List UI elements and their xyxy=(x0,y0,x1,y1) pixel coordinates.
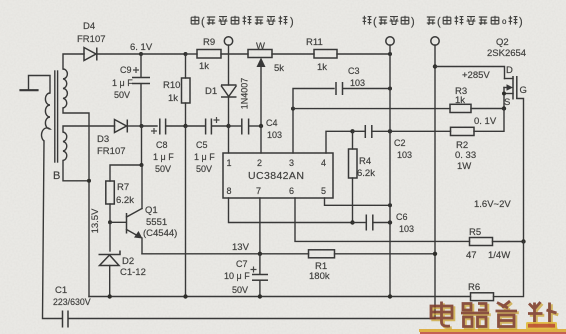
svg-text:13V: 13V xyxy=(232,242,250,253)
svg-text:R7: R7 xyxy=(117,182,129,193)
svg-text:103: 103 xyxy=(267,130,282,140)
svg-text:103: 103 xyxy=(399,224,414,234)
wire CS line pin3 to R3 xyxy=(293,108,450,110)
node C6-gnd xyxy=(388,220,392,224)
svg-text:(: ( xyxy=(373,16,377,28)
transformer T primary winding (left, B) xyxy=(42,93,50,141)
wire W to R11 xyxy=(272,53,314,55)
wire R11 to black terminal line xyxy=(337,53,390,55)
wire R5 to gate line xyxy=(493,241,524,243)
svg-text:R9: R9 xyxy=(203,37,215,48)
svg-text:R11: R11 xyxy=(306,37,323,48)
svg-text:C3: C3 xyxy=(348,66,360,76)
capacitor C5 1uF 50V xyxy=(186,117,220,135)
svg-text:5551: 5551 xyxy=(146,217,167,228)
resistor R5 47 xyxy=(470,238,493,246)
svg-text:50V: 50V xyxy=(155,164,171,174)
pin 4 lead xyxy=(326,131,353,153)
svg-text:Q2: Q2 xyxy=(496,37,509,48)
label C2 xyxy=(394,138,412,160)
svg-text:R10: R10 xyxy=(163,80,180,91)
svg-text:4: 4 xyxy=(321,158,326,168)
wire R3 to source xyxy=(471,108,504,110)
node C2-gnd xyxy=(388,129,392,133)
svg-text:C6: C6 xyxy=(396,212,408,222)
node R10 top xyxy=(184,52,188,56)
wire emitter to 13V rail xyxy=(142,253,309,255)
label Q2 xyxy=(487,37,526,59)
svg-text:D4: D4 xyxy=(83,21,95,32)
svg-text:): ) xyxy=(411,16,415,28)
svg-text:10 μ F: 10 μ F xyxy=(224,271,250,281)
svg-text:1k: 1k xyxy=(168,93,178,104)
transistor Q1 5551 xyxy=(110,165,143,254)
svg-text:2: 2 xyxy=(257,158,262,168)
svg-text:R5: R5 xyxy=(469,227,481,238)
capacitor C8 1uF 50V xyxy=(142,119,166,135)
transistor Q2 2SK2654 MOSFET xyxy=(504,76,524,242)
pin numbers bottom 8 7 6 5 xyxy=(227,186,327,196)
transformer secondary winding upper (6V) xyxy=(63,69,67,108)
zener D2 C1-12 xyxy=(99,222,121,296)
wire primary bottom to C1 xyxy=(43,141,63,319)
svg-text:5: 5 xyxy=(321,186,326,196)
label C5 xyxy=(194,140,215,174)
label D4 xyxy=(77,21,106,45)
ground bus wire xyxy=(89,296,471,298)
wire R9 to W xyxy=(221,53,248,55)
wire R2 right up to source xyxy=(474,109,504,132)
resistor R10 xyxy=(182,54,191,126)
wire D3 to node xyxy=(128,125,142,127)
svg-text:G: G xyxy=(520,85,527,96)
capacitor C2 103 xyxy=(353,125,391,138)
wire D4 to 6.1V rail xyxy=(98,53,142,55)
red terminal xyxy=(431,37,439,45)
svg-text:6.2k: 6.2k xyxy=(357,168,375,179)
svg-text:C8: C8 xyxy=(156,140,168,150)
svg-text:UC3842AN: UC3842AN xyxy=(248,170,304,182)
node Vcc xyxy=(258,252,262,256)
node C3-gnd xyxy=(388,87,392,91)
label D G S xyxy=(504,65,527,108)
svg-text:Q1: Q1 xyxy=(145,205,158,216)
capacitor C1 xyxy=(63,311,69,328)
svg-text:223/630V: 223/630V xyxy=(53,297,91,307)
svg-text:0. 33: 0. 33 xyxy=(455,150,476,161)
pin 1 lead xyxy=(228,126,230,153)
label R10 xyxy=(163,80,180,104)
node bus C7 xyxy=(258,294,262,298)
node collector junction xyxy=(140,163,144,167)
wire C1 right to red line xyxy=(69,318,436,320)
shield/earth stub top-left xyxy=(21,76,51,94)
svg-text:D: D xyxy=(506,65,513,76)
wire 13.5V return: winding mid tap down to common xyxy=(63,108,89,297)
node pin2 / wiper xyxy=(259,124,263,128)
diode D4 FR107 xyxy=(84,48,97,61)
capacitor C7 10uF 50V xyxy=(251,254,269,297)
wire lower winding to D3 xyxy=(63,126,115,132)
svg-text:1k: 1k xyxy=(455,95,465,106)
label C9 xyxy=(112,65,133,100)
svg-text:1W: 1W xyxy=(457,161,471,172)
svg-text:8: 8 xyxy=(227,186,232,196)
svg-text:D3: D3 xyxy=(97,134,109,145)
wire rail to R10 tap xyxy=(141,53,186,55)
resistor R4 6.2k xyxy=(349,131,358,222)
node rail-gnd xyxy=(388,52,392,56)
svg-text:180k: 180k xyxy=(309,271,330,282)
black terminal xyxy=(386,37,394,45)
svg-text:1 μ F: 1 μ F xyxy=(112,78,133,88)
svg-text:6.2k: 6.2k xyxy=(116,195,134,206)
label D3 xyxy=(97,134,126,157)
label R1 xyxy=(309,261,330,282)
wire lower winding bottom to common node xyxy=(63,161,89,181)
svg-text:50V: 50V xyxy=(196,164,212,174)
wire black terminal ground line xyxy=(389,45,391,297)
transformer core xyxy=(55,71,58,162)
pin 8 lead (Vref) xyxy=(229,198,353,223)
label C7 xyxy=(224,259,250,295)
svg-text:1N4007: 1N4007 xyxy=(240,78,250,110)
node R1 right xyxy=(433,252,437,256)
label C8 xyxy=(153,140,174,174)
svg-text:50V: 50V xyxy=(232,285,248,295)
transformer secondary winding lower (13V) xyxy=(63,132,67,161)
svg-text:3: 3 xyxy=(289,158,294,168)
node bus D2 xyxy=(108,294,112,298)
pin 7 lead (Vcc) xyxy=(259,198,261,254)
svg-text:W: W xyxy=(256,41,265,52)
label C3 xyxy=(348,66,365,88)
node pin5-gnd xyxy=(388,203,392,207)
watermark underline band xyxy=(419,329,566,334)
label R5 xyxy=(466,227,510,261)
svg-text:1.6V~2V: 1.6V~2V xyxy=(474,199,511,210)
svg-text:D1: D1 xyxy=(205,86,217,97)
node Q2 source stub xyxy=(502,92,506,96)
svg-text:2SK2654: 2SK2654 xyxy=(487,48,526,59)
capacitor C6 103 xyxy=(353,215,391,231)
node D3 output xyxy=(140,124,144,128)
watermark big characters xyxy=(431,301,558,328)
svg-text:1k: 1k xyxy=(317,62,327,73)
svg-text:+285V: +285V xyxy=(462,70,490,81)
label D2 xyxy=(120,256,146,278)
wire upper winding top to D4 xyxy=(63,54,84,69)
node 6.1V xyxy=(139,52,143,56)
label black terminal text xyxy=(363,16,415,28)
svg-text:1k: 1k xyxy=(199,61,209,72)
svg-text:C1-12: C1-12 xyxy=(120,267,146,278)
node bus black line xyxy=(388,294,392,298)
svg-text:C7: C7 xyxy=(236,259,248,269)
svg-text:0. 1V: 0. 1V xyxy=(474,116,497,127)
svg-text:(C4544): (C4544) xyxy=(143,228,177,239)
svg-text:C1: C1 xyxy=(55,285,67,296)
label R3 xyxy=(455,86,467,106)
svg-text:C5: C5 xyxy=(196,140,208,150)
label red terminal text xyxy=(427,16,523,28)
node drain junction xyxy=(433,64,437,68)
svg-text:FR107: FR107 xyxy=(97,146,126,157)
watermark badge xyxy=(526,322,557,330)
node bus gnd tap xyxy=(183,294,187,298)
svg-text:R6: R6 xyxy=(468,282,480,293)
wire rail to R9 xyxy=(186,53,198,55)
pin 2 lead xyxy=(260,126,262,153)
capacitor C9 1uF 50V xyxy=(132,54,150,126)
wire gnd tap down to bus xyxy=(185,126,187,297)
svg-text:1 μ F: 1 μ F xyxy=(153,152,174,162)
svg-text:6. 1V: 6. 1V xyxy=(130,42,153,53)
resistor R1 180k xyxy=(309,250,335,258)
diode D3 FR107 xyxy=(115,120,128,133)
svg-text:): ) xyxy=(290,16,294,28)
label R7 xyxy=(116,182,134,206)
label C1 value xyxy=(53,285,91,307)
label C4 xyxy=(266,118,282,140)
svg-text:C9: C9 xyxy=(120,65,132,75)
node R4 top xyxy=(350,129,354,133)
svg-text:5k: 5k xyxy=(274,63,284,74)
node R4 bottom / C6 left xyxy=(350,220,354,224)
pin 6 lead (OUT) xyxy=(295,198,470,241)
wire C8 to gnd tap xyxy=(166,125,186,127)
wire gate line down to R6 xyxy=(494,242,524,297)
svg-text:FR107: FR107 xyxy=(77,34,106,45)
node pin1 xyxy=(226,124,230,128)
resistor R2 0.33 1W xyxy=(451,127,475,135)
svg-text:103: 103 xyxy=(397,150,412,160)
wire drain line xyxy=(435,67,505,79)
svg-text:13.5V: 13.5V xyxy=(90,208,101,233)
svg-text:103: 103 xyxy=(350,78,365,88)
IC U1 UC3842AN body xyxy=(223,153,333,198)
svg-text:B: B xyxy=(53,170,60,182)
svg-text:C2: C2 xyxy=(394,138,406,148)
svg-text:S: S xyxy=(504,97,510,108)
svg-text:D2: D2 xyxy=(122,256,134,267)
gray terminal xyxy=(224,37,232,45)
label C6 xyxy=(396,212,414,234)
svg-text:1: 1 xyxy=(227,158,232,168)
svg-text:47: 47 xyxy=(466,250,477,261)
label R4 xyxy=(357,156,375,179)
label R2 xyxy=(455,140,476,172)
svg-text:50V: 50V xyxy=(114,90,130,100)
potentiometer W 5k xyxy=(248,50,272,127)
svg-text:C4: C4 xyxy=(266,118,278,128)
label gray terminal text xyxy=(191,16,293,28)
label Q1 xyxy=(143,205,177,239)
resistor R11 xyxy=(314,50,337,59)
svg-text:6: 6 xyxy=(289,186,294,196)
node base xyxy=(108,220,112,224)
label W 5k xyxy=(256,41,284,74)
pin 5 lead (GND) xyxy=(325,198,391,205)
wire R1 to red line xyxy=(335,253,436,255)
svg-text:7: 7 xyxy=(256,186,261,196)
node gnd tap xyxy=(183,124,187,128)
node pin3 xyxy=(291,107,295,111)
svg-text:1/4W: 1/4W xyxy=(488,250,510,261)
svg-text:(: ( xyxy=(201,16,205,28)
node gate line / R5 xyxy=(521,239,525,243)
diode D1 1N4007 xyxy=(221,85,237,126)
svg-text:o: o xyxy=(502,17,507,26)
resistor R9 xyxy=(197,50,221,59)
label R9 xyxy=(199,37,215,72)
node source/R3 xyxy=(502,106,506,110)
resistor R6 xyxy=(471,293,494,301)
pin 3 lead xyxy=(292,109,294,153)
label R11 xyxy=(306,37,327,73)
node common xyxy=(87,179,91,183)
wire C5 to pin1 node xyxy=(212,125,229,127)
wire red terminal line down xyxy=(434,45,436,319)
resistor R3 1k xyxy=(450,104,471,112)
resistor R7 xyxy=(106,181,115,204)
svg-text:1 μ F: 1 μ F xyxy=(194,152,215,162)
svg-text:R4: R4 xyxy=(359,156,371,167)
pin numbers top 1 2 3 4 xyxy=(227,158,327,168)
capacitor C4 103 xyxy=(229,119,262,135)
wire node to R7 branch xyxy=(110,126,142,181)
svg-text:): ) xyxy=(519,16,523,28)
wire R2 line from C2 node xyxy=(390,130,451,132)
svg-text:(: ( xyxy=(437,16,441,28)
wire gray terminal down xyxy=(228,45,230,85)
capacitor C3 103 xyxy=(293,82,390,109)
wire R7 to base node xyxy=(109,204,111,222)
